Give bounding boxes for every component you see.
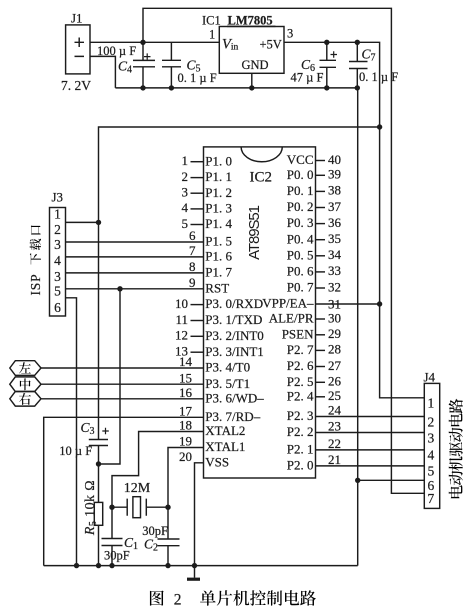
wire ground riser C7 to bottom rail [357,88,359,566]
svg-text:R5 10k Ω: R5 10k Ω [83,480,99,536]
svg-text:0. 1 µ F: 0. 1 µ F [359,70,398,84]
svg-text:9: 9 [189,275,196,290]
svg-text:P1. 2: P1. 2 [205,185,232,200]
capacitor C3 [89,428,109,467]
svg-text:P3. 2/INT0: P3. 2/INT0 [205,328,263,343]
svg-text:100 µ F: 100 µ F [97,44,136,58]
svg-text:1: 1 [182,153,189,168]
svg-text:P2. 0: P2. 0 [287,458,314,473]
svg-text:2: 2 [54,222,61,237]
IC2 pin 19 XTAL1 [179,434,245,454]
svg-text:P1. 7: P1. 7 [205,265,232,280]
svg-text:IC1: IC1 [202,14,221,28]
IC2 pin 39 P0. 0 [287,167,341,182]
svg-text:2: 2 [182,169,189,184]
svg-text:P1. 3: P1. 3 [205,201,232,216]
svg-text:P3. 1/TXD: P3. 1/TXD [205,312,262,327]
wire J3 pin3 to P1.6 [66,256,204,258]
capacitor C7 [349,42,368,88]
regulator IC1 LM7805 [219,27,284,74]
svg-text:40: 40 [328,152,341,167]
wire J3 pin5 to RST [66,286,204,291]
node 中 flag [10,377,41,392]
svg-text:47 µ F: 47 µ F [291,71,324,85]
svg-text:J4: J4 [424,370,436,385]
IC2 pin 20 VSS [179,449,229,469]
J4 pin numbers [428,396,435,507]
svg-text:7: 7 [428,491,435,506]
svg-text:VSS: VSS [205,454,229,469]
node 右 flag [10,392,41,407]
svg-text:J1: J1 [71,11,83,26]
IC2 pin 28 P2. 7 [287,342,341,357]
svg-text:P3. 5/T1: P3. 5/T1 [205,376,250,391]
svg-text:8: 8 [189,259,196,274]
IC2 pin 13 P3. 3/INT1 [175,344,264,359]
wire 中 to P3.5 [41,383,204,385]
connector J4 [424,383,439,508]
svg-text:34: 34 [328,247,342,262]
svg-text:P1. 1: P1. 1 [205,169,232,184]
capacitor C1 [102,507,123,568]
label 电动机驱动电路 [449,399,463,498]
svg-text:25: 25 [328,388,341,403]
svg-text:J3: J3 [52,190,64,205]
IC2 pin 1 P1. 0 [182,153,233,168]
svg-text:1: 1 [428,396,435,411]
svg-text:P1. 5: P1. 5 [205,234,232,249]
wire IC1 GND lead [251,73,253,88]
svg-text:3: 3 [182,185,189,200]
connector J3 [50,208,66,317]
svg-text:P2. 5: P2. 5 [287,374,314,389]
capacitor C5 [162,42,181,88]
svg-text:P3. 3/INT1: P3. 3/INT1 [205,344,263,359]
svg-text:4: 4 [428,448,435,463]
IC2 pin 30 ALE/PR [269,310,341,325]
label IC1 LM7805 [202,14,276,28]
svg-text:P0. 0: P0. 0 [287,167,314,182]
wire XTAL2 to crystal [112,432,204,508]
svg-text:3: 3 [428,430,435,445]
wire RST to C3/R5 junction [99,289,121,464]
IC2 pin 24 P2. 3 [287,403,342,423]
svg-text:1: 1 [54,207,61,222]
capacitor C2 [158,507,180,568]
wire J3 pin1 to +5V [66,221,99,223]
wire 左 to P3.4 [41,367,204,369]
wire XTAL1 to crystal [168,448,204,508]
svg-text:+5V: +5V [260,38,282,52]
wire J3 pin6 to ground rail [66,298,80,569]
svg-text:15: 15 [179,370,192,385]
ground symbol [187,578,200,581]
IC2 pin 14 P3. 4/T0 [179,354,250,374]
caption 图 2 单片机控制电路 [150,590,316,608]
svg-text:36: 36 [328,215,342,230]
label ISP 下载口 [28,225,43,295]
IC2 pin 21 P2. 0 [287,452,341,472]
IC2 pin 34 P0. 5 [287,247,342,262]
svg-text:35: 35 [328,231,341,246]
svg-text:19: 19 [179,434,192,449]
svg-text:LM7805: LM7805 [228,14,273,28]
svg-text:26: 26 [328,374,342,389]
svg-text:0. 1 µ F: 0. 1 µ F [178,71,217,85]
IC2 pin 38 P0. 1 [287,183,341,198]
svg-text:P0. 4: P0. 4 [287,231,314,246]
IC2 pin 25 P2. 4 [287,388,341,403]
svg-text:P2. 2: P2. 2 [287,424,314,439]
svg-text:21: 21 [328,452,341,467]
svg-text:5: 5 [54,283,61,298]
resistor R5 [94,464,102,568]
svg-text:XTAL2: XTAL2 [205,423,245,438]
svg-text:7. 2V: 7. 2V [61,78,91,93]
capacitor C6 [320,42,338,88]
IC2 pin 11 P3. 1/TXD [175,312,262,327]
svg-text:ISP: ISP [28,274,43,296]
svg-text:20: 20 [179,449,192,464]
svg-text:P2. 7: P2. 7 [287,342,314,357]
IC2 pin 6 P1. 5 [189,228,232,248]
svg-text:3: 3 [54,269,61,284]
svg-text:VCC: VCC [287,152,314,167]
svg-text:24: 24 [328,403,342,418]
svg-text:14: 14 [179,354,193,369]
svg-text:5: 5 [182,216,189,231]
svg-text:4: 4 [54,253,61,268]
connector J1 [66,25,90,74]
svg-text:P0. 5: P0. 5 [287,247,314,262]
wire J3 pin2 to P1.5 [66,241,204,243]
svg-text:32: 32 [328,279,341,294]
IC2 pin 2 P1. 1 [182,169,233,184]
IC2 pin 35 P0. 4 [287,231,341,246]
IC2 pin 8 P1. 7 [189,259,233,279]
wire J1- down to ground rail [90,56,115,88]
IC2 pin 9 RST [189,275,229,295]
svg-text:PSEN: PSEN [282,326,314,341]
IC2 pin 27 P2. 6 [287,358,342,373]
wire J1+ to IC1 Vin [90,41,219,43]
crystal 12M [109,497,170,518]
wire ground to J4 pin6 [355,478,424,483]
svg-text:12: 12 [175,328,188,343]
IC2 pin 4 P1. 3 [182,200,233,215]
wire top ground rail [115,85,360,90]
IC2 pin 22 P2. 1 [287,436,341,456]
svg-text:P2. 4: P2. 4 [287,388,314,403]
svg-text:38: 38 [328,183,341,198]
MCU IC2 AT89S51 [204,147,316,478]
IC2 pin 5 P1. 4 [182,216,233,231]
IC2 pin 15 P3. 5/T1 [179,370,250,390]
svg-text:VPP/EA–: VPP/EA– [262,296,314,311]
wire 右 to P3.6 [41,398,204,400]
wire P2.2 to J4 pin3 [316,432,425,434]
svg-text:P0. 6: P0. 6 [287,264,314,279]
IC2 pin 26 P2. 5 [287,374,342,389]
svg-text:P0. 1: P0. 1 [287,183,314,198]
svg-text:GND: GND [242,58,269,72]
svg-text:P0. 3: P0. 3 [287,215,314,230]
svg-text:7: 7 [189,243,196,258]
svg-text:27: 27 [328,358,342,373]
svg-text:10: 10 [175,296,188,311]
IC2 pin 32 P0. 7 [287,279,341,294]
wire +5V from IC1 out to J4 pin1 [284,40,424,398]
wire P3.7/RD loop to ground rail [44,417,204,565]
svg-text:39: 39 [328,167,341,182]
svg-text:P2. 6: P2. 6 [287,358,314,373]
svg-text:16: 16 [179,385,193,400]
IC2 pin 23 P2. 2 [287,419,341,439]
svg-text:33: 33 [328,263,341,278]
svg-text:17: 17 [179,404,193,419]
capacitor C4 [133,42,155,88]
wire VPP/EA pin31 to +5V line [316,303,380,305]
wire VSS to ground [192,463,204,578]
wire P2.3 to J4 pin2 [316,416,425,418]
svg-text:P3. 6/WD–: P3. 6/WD– [205,390,264,405]
IC2 pin 12 P3. 2/INT0 [175,328,264,343]
svg-text:18: 18 [179,418,192,433]
svg-text:IC2: IC2 [250,169,273,185]
svg-text:3: 3 [287,27,293,41]
IC2 pin 3 P1. 2 [182,185,233,200]
svg-text:P0. 2: P0. 2 [287,199,314,214]
IC2 pin 40 VCC [287,152,341,167]
IC2 pin 37 P0. 2 [287,199,342,214]
svg-text:23: 23 [328,419,341,434]
IC2 pin 31 VPP/EA– [262,296,341,312]
svg-text:RST: RST [205,280,229,295]
wire bottom ground rail [44,565,358,567]
svg-text:P2. 1: P2. 1 [287,442,314,457]
svg-text:P3. 0/RXD: P3. 0/RXD [205,296,263,311]
svg-text:1: 1 [209,28,215,42]
J3 pin numbers [54,207,61,315]
svg-text:P0. 7: P0. 7 [287,280,314,295]
svg-text:30: 30 [328,310,341,325]
svg-text:XTAL1: XTAL1 [205,439,245,454]
wire J3 pin4 to P1.7 [66,272,204,274]
svg-text:P1. 0: P1. 0 [205,153,232,168]
svg-text:30pF: 30pF [142,524,168,538]
svg-text:30pF: 30pF [104,549,130,563]
IC2 pin 36 P0. 3 [287,215,342,230]
svg-text:10 µ F: 10 µ F [59,444,92,458]
svg-text:P1. 6: P1. 6 [205,249,232,264]
wire 7.2V loop from J1+ to J4 pin7 [140,8,424,493]
wire +5V ring to J3 pin1 and C3 [96,127,380,440]
svg-text:2: 2 [174,591,182,608]
svg-text:12M: 12M [124,481,151,496]
IC2 pin 16 P3. 6/WD– [179,385,264,405]
svg-text:29: 29 [328,326,341,341]
IC2 pin 29 PSEN [282,326,341,341]
IC2 pin 7 P1. 6 [189,243,233,263]
IC2 pin 10 P3. 0/RXD [175,296,263,311]
svg-text:2: 2 [428,414,435,429]
svg-text:11: 11 [175,312,188,327]
svg-text:22: 22 [328,436,341,451]
wire P2.1 to J4 pin4 [316,449,425,451]
svg-text:P3. 7/RD–: P3. 7/RD– [205,409,260,424]
IC2 pin 18 XTAL2 [179,418,245,438]
wire P2.0 to J4 pin5 [316,465,425,467]
svg-text:6: 6 [54,300,61,315]
svg-text:ALE/PR: ALE/PR [269,311,314,326]
svg-text:P2. 3: P2. 3 [287,408,314,423]
svg-text:5: 5 [428,464,435,479]
IC2 pin 33 P0. 6 [287,263,341,278]
IC2 pin 17 P3. 7/RD– [179,404,261,424]
svg-text:6: 6 [189,228,196,243]
svg-text:P3. 4/T0: P3. 4/T0 [205,360,250,375]
svg-text:P1. 4: P1. 4 [205,216,232,231]
svg-text:28: 28 [328,342,341,357]
svg-text:37: 37 [328,199,342,214]
svg-text:4: 4 [182,200,189,215]
svg-text:AT89S51: AT89S51 [246,205,263,259]
svg-text:3: 3 [54,237,61,252]
node 左 flag [10,361,41,376]
